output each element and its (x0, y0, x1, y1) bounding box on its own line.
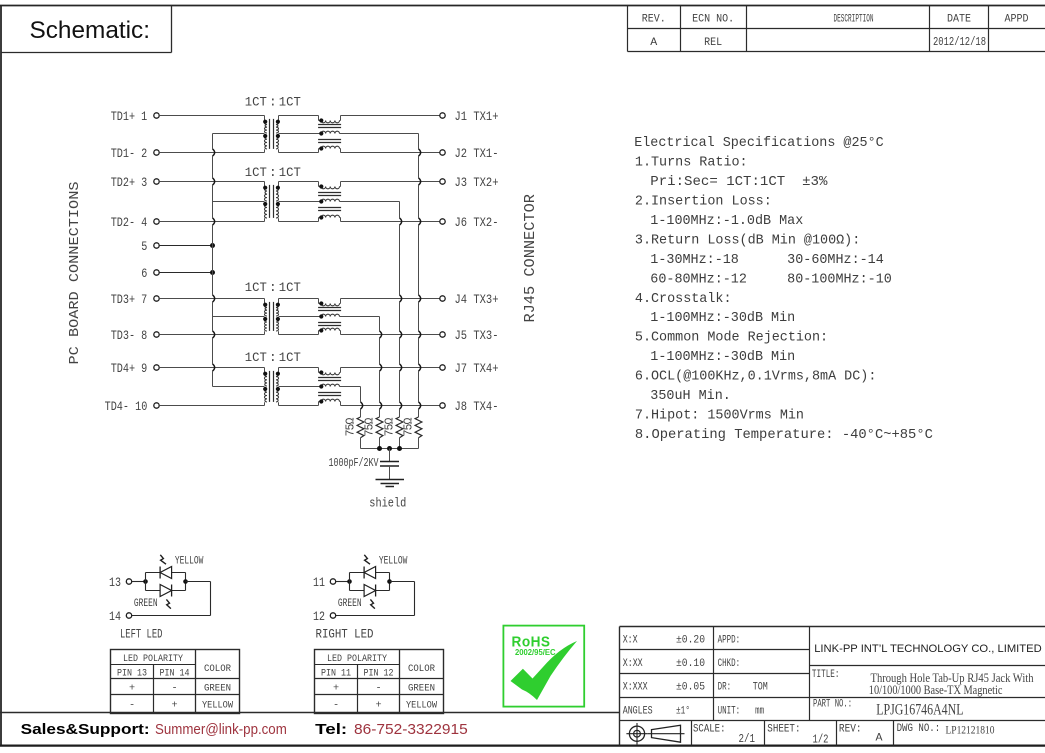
wire T3 secondary center tap to choke (279, 316, 319, 318)
svg-text:shield: shield (369, 496, 406, 511)
drawing frame line above contact strip (0, 712, 620, 714)
wire T3 secondary bottom to choke (279, 334, 319, 336)
wire pin 2 to transformer primary (159, 152, 264, 154)
svg-text:1/2: 1/2 (813, 733, 829, 747)
svg-text:1CT: 1CT (245, 165, 267, 180)
LED pair branch rectangle left (146, 573, 186, 591)
J terminal 4 (440, 296, 445, 301)
svg-text:LPJG16746A4NL: LPJG16746A4NL (876, 701, 963, 718)
center-tap drop wire channel 1 (418, 134, 420, 149)
wire center-tap stub bus to T3 primary (213, 316, 265, 318)
light arrow of green LED right (370, 599, 375, 608)
wire pin 13 to LED pair (132, 581, 146, 583)
ground symbol (shield) (376, 480, 405, 487)
junction dot right of left LED pair (183, 579, 188, 584)
center-tap drop wire channel 3 (379, 317, 381, 331)
svg-text:1CT: 1CT (279, 165, 301, 180)
svg-text:YELLOW: YELLOW (175, 556, 204, 568)
svg-text:TD1- 2: TD1- 2 (111, 147, 148, 161)
wire choke CM4 center tap to termination drop (341, 386, 361, 388)
svg-text:PC BOARD CONNECTIONS: PC BOARD CONNECTIONS (67, 182, 83, 365)
svg-text:TOM: TOM (753, 682, 768, 694)
svg-text:75Ω: 75Ω (363, 418, 376, 437)
common-mode choke CM4 (318, 368, 341, 406)
wire T2 secondary bottom to choke (279, 221, 319, 223)
J terminal 6 (440, 219, 445, 224)
wire bus to capacitor (389, 449, 391, 462)
wire T3 secondary top to choke (279, 298, 319, 300)
table 2 row green polarity (333, 684, 435, 695)
svg-text:UNIT:: UNIT: (718, 705, 741, 717)
svg-text:7.Hipot: 1500Vrms Min: 7.Hipot: 1500Vrms Min (635, 408, 804, 424)
wire T2 secondary top to choke (279, 181, 319, 183)
J terminal 8 (440, 403, 445, 408)
svg-text:Sales&Support:: Sales&Support: (21, 722, 150, 738)
wire pin 3 to transformer primary (159, 181, 264, 183)
wire center-tap stub bus to T2 primary (213, 201, 265, 203)
svg-text:SCALE:: SCALE: (693, 724, 726, 736)
pin terminal 14 (left LED return) (126, 613, 131, 618)
svg-text:REL: REL (704, 37, 722, 49)
svg-text:LED POLARITY: LED POLARITY (123, 654, 183, 665)
svg-text:GREEN: GREEN (204, 684, 231, 695)
wire pin 5 to center-tap bus (159, 245, 212, 247)
termination bottom bus wire (361, 448, 419, 450)
pin terminal 3 (TD2+) (154, 179, 159, 184)
electrical specifications notes (634, 135, 933, 443)
title block grid (620, 627, 1045, 746)
svg-text:1000pF/2KV: 1000pF/2KV (329, 457, 379, 470)
svg-text:ANGLES: ANGLES (623, 705, 653, 717)
svg-text:Electrical Specifications @25°: Electrical Specifications @25°C (634, 135, 884, 151)
wire T1 secondary bottom to choke (279, 152, 319, 154)
wire choke to J7 terminal (341, 367, 440, 369)
svg-text:REV.: REV. (642, 14, 666, 26)
green LED D-left-G (cathode right) (160, 585, 172, 597)
svg-text:TD3+ 7: TD3+ 7 (111, 293, 148, 307)
junction dot center on bottom bus (387, 446, 392, 451)
svg-text:PART NO.:: PART NO.: (813, 698, 852, 710)
svg-text:DATE: DATE (947, 14, 971, 26)
svg-text:8.Operating Temperature: -40°C: 8.Operating Temperature: -40°C~+85°C (635, 427, 933, 443)
junction dot pin 5 on bus (210, 243, 215, 248)
svg-text::: : (269, 165, 277, 180)
LED pair branch rectangle right (350, 573, 390, 591)
svg-text:+: + (333, 684, 339, 695)
svg-text:J7 TX4+: J7 TX4+ (455, 362, 499, 376)
common-mode choke CM3 (318, 299, 341, 335)
junction dot left of left LED pair (143, 579, 148, 584)
pin terminal 4 (TD2-) (154, 219, 159, 224)
svg-text:6.OCL(@100KHz,0.1Vrms,8mA DC):: 6.OCL(@100KHz,0.1Vrms,8mA DC): (635, 369, 877, 385)
svg-text:A: A (650, 37, 657, 49)
svg-text:-: - (171, 684, 177, 695)
junction dot right of right LED pair (387, 579, 392, 584)
junction dot right on bottom bus (397, 446, 402, 451)
capacitor C1 1000pF/2KV plates (380, 462, 399, 467)
svg-text:±0.10: ±0.10 (676, 658, 705, 670)
svg-text:1-100MHz:-30dB Min: 1-100MHz:-30dB Min (650, 349, 795, 365)
svg-text:mm: mm (755, 705, 764, 717)
svg-text:PIN 12: PIN 12 (364, 669, 394, 680)
svg-text:TD2- 4: TD2- 4 (111, 216, 148, 230)
svg-text:Tel:: Tel: (315, 722, 347, 738)
svg-text:11: 11 (313, 576, 325, 590)
J terminal 2 (440, 150, 445, 155)
svg-text:75Ω: 75Ω (383, 418, 396, 437)
svg-text:J4 TX3+: J4 TX3+ (455, 293, 499, 307)
svg-text:±0.20: ±0.20 (676, 635, 705, 647)
wire pin 10 to transformer primary (159, 405, 264, 407)
transformer T2 (1CT:1CT isolation transformer) (263, 182, 280, 222)
wire pin 8 to transformer primary (159, 334, 264, 336)
svg-text:J6 TX2-: J6 TX2- (455, 216, 499, 230)
svg-text:TD1+ 1: TD1+ 1 (111, 110, 148, 124)
junction dot left on bottom bus (377, 446, 382, 451)
wire LED pair to pin 12 (336, 582, 415, 616)
wire T1 secondary center tap to choke (279, 133, 319, 135)
svg-text::: : (269, 95, 277, 110)
svg-text:±0.05: ±0.05 (676, 682, 705, 694)
svg-text:PIN 13: PIN 13 (117, 669, 147, 680)
LED polarity table 2 grid (315, 650, 444, 714)
svg-text:REV:: REV: (839, 724, 862, 736)
svg-text:1-100MHz:-30dB Min: 1-100MHz:-30dB Min (650, 310, 795, 326)
svg-text:ECN NO.: ECN NO. (692, 14, 734, 26)
pin terminal 1 (TD1+) (154, 113, 159, 118)
svg-text:86-752-3322915: 86-752-3322915 (354, 722, 468, 738)
svg-text:TD3- 8: TD3- 8 (111, 329, 148, 343)
wire center-tap stub bus to T1 primary (213, 133, 265, 135)
pin terminal 2 (TD1-) (154, 150, 159, 155)
svg-text:YELLOW: YELLOW (406, 701, 438, 712)
J terminal 3 (440, 179, 445, 184)
svg-text:COLOR: COLOR (204, 664, 231, 675)
svg-text:J2 TX1-: J2 TX1- (455, 147, 499, 161)
wire T4 secondary top to choke (279, 367, 319, 369)
J terminal 7 (440, 365, 445, 370)
wire T4 secondary bottom to choke (279, 405, 319, 407)
junction dot left of right LED pair (347, 579, 352, 584)
svg-text:TD4- 10: TD4- 10 (105, 400, 148, 414)
svg-text:1-30MHz:-18 30-60MHz:-14: 1-30MHz:-18 30-60MHz:-14 (650, 252, 884, 268)
svg-text:GREEN: GREEN (408, 684, 435, 695)
resistor R1 75ohm termination (357, 417, 364, 449)
first-angle projection symbol (626, 723, 684, 744)
pin terminal 12 (right LED return) (330, 613, 335, 618)
svg-text:TD4+ 9: TD4+ 9 (111, 362, 148, 376)
LED polarity table 1 grid (111, 650, 240, 714)
svg-text:1CT: 1CT (279, 350, 301, 365)
svg-text:J1 TX1+: J1 TX1+ (455, 110, 499, 124)
wire T1 secondary top to choke (279, 115, 319, 117)
svg-text:PIN 11: PIN 11 (321, 669, 351, 680)
svg-text:350uH Min.: 350uH Min. (650, 388, 731, 404)
svg-text:LED POLARITY: LED POLARITY (327, 654, 387, 665)
svg-text:COLOR: COLOR (408, 664, 435, 675)
svg-text:6: 6 (141, 267, 147, 281)
svg-text:14: 14 (109, 610, 121, 624)
wire choke to J1 terminal (341, 115, 440, 117)
center-tap drop wire channel 4 (360, 387, 362, 402)
svg-text:X:XX: X:XX (623, 658, 643, 670)
wire center-tap stub bus to T4 primary (213, 386, 265, 388)
svg-text:-: - (375, 684, 381, 695)
svg-text:13: 13 (109, 576, 121, 590)
wire choke CM2 center tap to termination drop (341, 201, 400, 203)
light arrow of yellow LED left (160, 555, 166, 564)
transformer T1 (1CT:1CT isolation transformer) (263, 116, 280, 153)
svg-text:YELLOW: YELLOW (379, 556, 408, 568)
page border top edge (0, 5, 1045, 7)
svg-text:PIN 14: PIN 14 (160, 669, 190, 680)
pin terminal 5 (pin) (154, 243, 159, 248)
svg-text:APPD: APPD (1005, 14, 1029, 26)
common-mode choke CM2 (318, 182, 341, 222)
revision table grid (628, 6, 1045, 52)
svg-text:10/100/1000 Base-TX Magnetic: 10/100/1000 Base-TX Magnetic (869, 683, 1003, 697)
svg-text:J8 TX4-: J8 TX4- (455, 400, 499, 414)
common-mode choke CM1 (318, 116, 341, 153)
transformer T4 (1CT:1CT isolation transformer) (263, 368, 280, 406)
svg-text:TITLE:: TITLE: (812, 669, 840, 681)
svg-text:5.Common Mode Rejection:: 5.Common Mode Rejection: (635, 330, 828, 346)
wire choke to J4 terminal (341, 298, 440, 300)
svg-text:X:X: X:X (623, 635, 638, 647)
svg-text:J5 TX3-: J5 TX3- (455, 329, 499, 343)
J terminal 1 (440, 113, 445, 118)
svg-text:-: - (333, 701, 339, 712)
svg-text:1CT: 1CT (279, 280, 301, 295)
light arrow of green LED left (166, 599, 171, 608)
svg-text:60-80MHz:-12 80-100MHz:-10: 60-80MHz:-12 80-100MHz:-10 (650, 271, 892, 287)
yellow LED D-left-Y (cathode left) (160, 567, 172, 579)
svg-text:1-100MHz:-1.0dB Max: 1-100MHz:-1.0dB Max (650, 213, 803, 229)
primary center-tap bus wire (pins 5,6) (212, 134, 214, 149)
svg-text:3.Return Loss(dB Min @100Ω):: 3.Return Loss(dB Min @100Ω): (635, 232, 860, 248)
svg-text:4.Crosstalk:: 4.Crosstalk: (635, 291, 732, 307)
J terminal 5 (440, 332, 445, 337)
wire pin 7 to transformer primary (159, 298, 264, 300)
title box "Schematic:" (1, 6, 172, 53)
svg-text:5: 5 (141, 240, 147, 254)
wire T2 secondary center tap to choke (279, 201, 319, 203)
svg-text:1CT: 1CT (245, 280, 267, 295)
svg-text:Summer@link-pp.com: Summer@link-pp.com (155, 722, 287, 738)
wire pin 1 to transformer primary (159, 115, 264, 117)
svg-text:-: - (129, 701, 135, 712)
wire choke to J3 terminal (341, 181, 440, 183)
resistor R3 75ohm termination (396, 417, 403, 449)
light arrow of yellow LED right (364, 555, 370, 564)
green LED D-right-G (cathode right) (364, 585, 376, 597)
svg-text:12: 12 (313, 610, 325, 624)
wire choke to J6 terminal (341, 221, 440, 223)
wire choke to J5 terminal (341, 334, 440, 336)
wire T4 secondary center tap to choke (279, 386, 319, 388)
svg-text:2/1: 2/1 (739, 732, 756, 746)
svg-text:Pri:Sec= 1CT:1CT ±3%: Pri:Sec= 1CT:1CT ±3% (650, 174, 828, 190)
svg-text:APPD:: APPD: (718, 635, 741, 647)
svg-text:LEFT LED: LEFT LED (120, 626, 163, 641)
wire pin 6 to center-tap bus (159, 272, 212, 274)
svg-text:LINK-PP INT’L TECHNOLOGY CO.,: LINK-PP INT’L TECHNOLOGY CO., LIMITED (814, 643, 1041, 655)
svg-text:2012/12/18: 2012/12/18 (933, 36, 986, 49)
svg-text:GREEN: GREEN (338, 598, 362, 610)
svg-text:YELLOW: YELLOW (202, 701, 234, 712)
RoHS compliance logo (503, 626, 584, 707)
svg-text:2.Insertion Loss:: 2.Insertion Loss: (635, 193, 772, 209)
svg-text:DWG NO.:: DWG NO.: (897, 723, 941, 735)
svg-text:RJ45 CONNECTOR: RJ45 CONNECTOR (523, 194, 539, 323)
svg-text:A: A (876, 733, 883, 745)
wire pin 9 to transformer primary (159, 367, 264, 369)
svg-text:X:XXX: X:XXX (623, 682, 648, 694)
svg-text::: : (269, 350, 277, 365)
pin terminal 9 (TD4+) (154, 365, 159, 370)
svg-text:+: + (129, 684, 135, 695)
resistor R4 75ohm termination (415, 417, 422, 449)
resistor R2 75ohm termination (376, 417, 383, 449)
svg-text:±1°: ±1° (676, 705, 690, 717)
yellow LED D-right-Y (cathode left) (364, 567, 376, 579)
pin terminal 7 (TD3+) (154, 296, 159, 301)
svg-text:RIGHT LED: RIGHT LED (316, 626, 374, 641)
svg-text:1.Turns Ratio:: 1.Turns Ratio: (635, 154, 748, 170)
pin terminal 8 (TD3-) (154, 332, 159, 337)
wire choke CM3 center tap to termination drop (341, 316, 380, 318)
wire choke to J8 terminal (341, 405, 440, 407)
pin terminal 11 (right LED anode row) (330, 579, 335, 584)
wire LED pair to pin 14 (132, 582, 211, 616)
svg-text:SHEET:: SHEET: (767, 724, 800, 736)
svg-text:DESCRIPTION: DESCRIPTION (834, 14, 874, 26)
table 2 row yellow polarity (333, 701, 438, 712)
svg-text:DR:: DR: (718, 682, 732, 694)
wire choke to J2 terminal (341, 152, 440, 154)
svg-text:+: + (375, 701, 381, 712)
svg-text:1CT: 1CT (245, 95, 267, 110)
wire choke CM1 center tap to termination drop (341, 133, 419, 135)
svg-text:CHKD:: CHKD: (718, 658, 741, 670)
pin terminal 6 (pin) (154, 270, 159, 275)
svg-text:+: + (171, 701, 177, 712)
svg-text:75Ω: 75Ω (344, 418, 357, 437)
svg-text:75Ω: 75Ω (402, 418, 415, 437)
center-tap drop wire channel 2 (399, 202, 401, 218)
transformer T3 (1CT:1CT isolation transformer) (263, 299, 280, 335)
svg-text::: : (269, 280, 277, 295)
wire pin 11 to LED pair (336, 581, 350, 583)
wire capacitor to ground (389, 466, 391, 480)
svg-text:1CT: 1CT (245, 350, 267, 365)
svg-text:TD2+ 3: TD2+ 3 (111, 176, 148, 190)
junction dot pin 6 on bus (210, 270, 215, 275)
svg-text:J3 TX2+: J3 TX2+ (455, 176, 499, 190)
pin terminal 13 (left LED anode row) (126, 579, 131, 584)
svg-text:2002/95/EC: 2002/95/EC (515, 648, 556, 657)
svg-text:LP12121810: LP12121810 (946, 725, 995, 737)
svg-text:GREEN: GREEN (134, 598, 158, 610)
page border left edge (0, 6, 2, 746)
svg-text:Schematic:: Schematic: (30, 17, 151, 44)
page border bottom edge (0, 744, 1045, 746)
table 1 row green polarity (129, 684, 231, 695)
wire pin 4 to transformer primary (159, 221, 264, 223)
table 1 row yellow polarity (129, 701, 234, 712)
svg-text:1CT: 1CT (279, 95, 301, 110)
pin terminal 10 (TD4-) (154, 403, 159, 408)
